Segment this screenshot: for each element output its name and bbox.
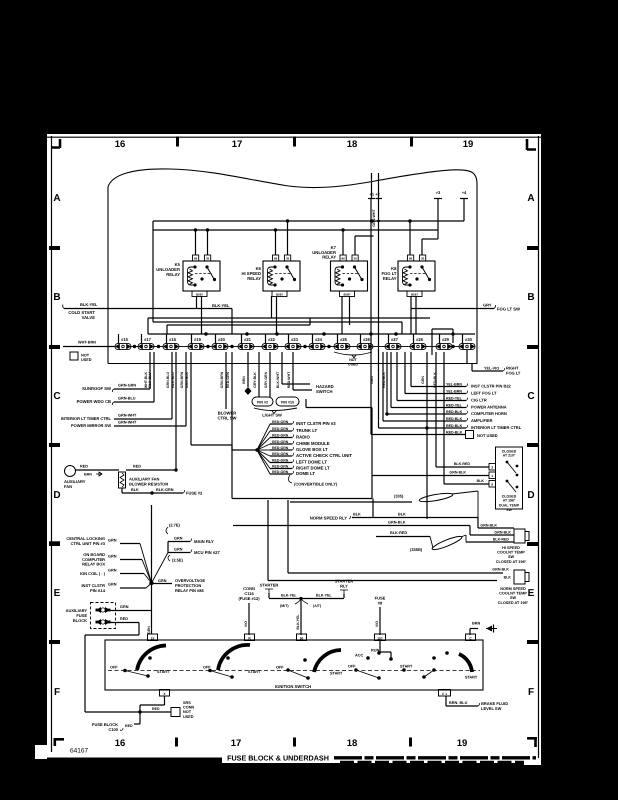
svg-text:GRN: GRN xyxy=(108,583,117,587)
wire drop to fuse bus xyxy=(401,322,403,334)
svg-text:FOG LT: FOG LT xyxy=(506,371,521,376)
svg-text:RED-BLK: RED-BLK xyxy=(446,431,463,435)
svg-text:YEL-VIO: YEL-VIO xyxy=(484,367,499,371)
svg-text:NORM SPEED RLY: NORM SPEED RLY xyxy=(310,516,348,521)
svg-text:LEVEL SW: LEVEL SW xyxy=(481,706,502,711)
wire red drop to fuse block c100 xyxy=(84,635,86,712)
svg-text:BLK: BLK xyxy=(398,513,406,517)
svg-text:RED: RED xyxy=(120,617,128,621)
svg-text:#25: #25 xyxy=(340,337,348,342)
svg-text:+4: +4 xyxy=(462,190,467,195)
svg-text:C 1: C 1 xyxy=(442,692,447,696)
svg-text:POWER ANTENNA: POWER ANTENNA xyxy=(471,405,507,410)
ignition contact arc 2 xyxy=(218,645,250,670)
aux fuse 1 xyxy=(96,607,110,613)
svg-text:A: A xyxy=(53,193,60,204)
svg-text:GRN-WHT: GRN-WHT xyxy=(118,414,137,418)
svg-text:PIN #10: PIN #10 xyxy=(281,401,294,405)
svg-text:LEFT FOG LT: LEFT FOG LT xyxy=(471,391,497,396)
svg-text:#18: #18 xyxy=(169,337,177,342)
svg-text:85/87: 85/87 xyxy=(411,292,418,296)
ignition contact arc 3 xyxy=(314,650,341,672)
svg-text:(2.5E): (2.5E) xyxy=(172,558,184,563)
svg-text:85/87: 85/87 xyxy=(196,292,203,296)
svg-text:1: 1 xyxy=(491,474,493,478)
svg-text:GRN-WHT: GRN-WHT xyxy=(118,421,137,425)
svg-text:85/87: 85/87 xyxy=(276,292,283,296)
wire K7 pin 30 riser xyxy=(354,236,356,255)
ignition pin 50 xyxy=(297,634,307,641)
svg-text:(335): (335) xyxy=(394,494,404,499)
wire riser to overvoltage node xyxy=(167,542,169,553)
svg-text:GRN-WHT: GRN-WHT xyxy=(372,209,376,227)
wire riser from fuse 29-30 area xyxy=(452,329,454,343)
wire RED-YEL to power antenna xyxy=(390,352,392,408)
svg-text:NOT: NOT xyxy=(349,358,357,362)
svg-text:BLK: BLK xyxy=(504,576,512,580)
svg-text:GRY-GRN: GRY-GRN xyxy=(264,371,268,388)
svg-text:15?: 15? xyxy=(377,636,383,640)
svg-text:#17: #17 xyxy=(144,337,152,342)
svg-text:DOME LT: DOME LT xyxy=(296,471,315,476)
svg-text:CTRL UNIT PIN #3: CTRL UNIT PIN #3 xyxy=(71,541,106,546)
svg-text:RED-GRN: RED-GRN xyxy=(272,434,289,438)
white diagram page xyxy=(47,134,541,758)
svg-text:C100: C100 xyxy=(108,727,118,732)
svg-text:PIN A14: PIN A14 xyxy=(90,588,106,593)
title bar dashes left xyxy=(66,758,232,762)
svg-text:(335B): (335B) xyxy=(410,547,423,552)
svg-text:RLY: RLY xyxy=(340,584,348,589)
fuse block inner box outline xyxy=(190,352,192,445)
central locking label xyxy=(49,541,60,544)
svg-text:#21: #21 xyxy=(244,337,252,342)
svg-text:GRY: GRY xyxy=(483,303,492,308)
auxiliary fan motor xyxy=(65,466,76,477)
wire sunroof sw xyxy=(149,352,151,389)
wire RED-BLK to amplifier xyxy=(382,352,384,421)
fuse #18 xyxy=(163,343,179,349)
svg-text:AMPLIFIER: AMPLIFIER xyxy=(471,418,493,423)
ignition pin c1 bottom xyxy=(439,690,451,697)
svg-text:AT 210°: AT 210° xyxy=(503,454,516,458)
wire power mirror sw xyxy=(185,352,187,426)
svg-text:30: 30 xyxy=(206,257,210,261)
svg-text:START: START xyxy=(157,670,170,674)
ignition pin r xyxy=(245,634,255,641)
svg-text:#28: #28 xyxy=(416,337,424,342)
wire yel-vio right fog lt xyxy=(466,350,468,364)
not used brace fuses 25 26 xyxy=(334,352,372,358)
svg-text:FOG LT SW: FOG LT SW xyxy=(497,307,520,312)
svg-text:COOLNT TEMP: COOLNT TEMP xyxy=(499,592,527,596)
fuse #27 xyxy=(385,343,401,349)
relay K5 unloader relay xyxy=(183,261,220,291)
wire blk to pin 9 xyxy=(443,352,445,484)
svg-text:#23: #23 xyxy=(291,337,299,342)
not used connector square xyxy=(466,431,474,439)
wire hazard switch 1 xyxy=(281,352,283,384)
svg-text:16: 16 xyxy=(115,738,126,749)
svg-text:D: D xyxy=(53,490,60,501)
svg-text:RED-BLK: RED-BLK xyxy=(446,417,463,421)
svg-text:BLK-YEL: BLK-YEL xyxy=(296,614,300,630)
svg-text:MAIN RLY: MAIN RLY xyxy=(194,539,214,544)
light sw pin 2 connector xyxy=(252,397,273,406)
svg-text:SW: SW xyxy=(506,508,512,512)
wire YEL-BRN to inst clstr pin b22 xyxy=(410,352,412,387)
title bar dashes right xyxy=(334,756,536,759)
svg-text:RED-GRN: RED-GRN xyxy=(272,446,289,450)
svg-text:RELAY PIN #86: RELAY PIN #86 xyxy=(175,588,204,593)
svg-text:GRN-BRN: GRN-BRN xyxy=(180,371,184,388)
svg-text:GRN-BLK: GRN-BLK xyxy=(449,471,466,475)
svg-text:RED-WHT: RED-WHT xyxy=(287,371,291,388)
svg-text:GRN-GRN: GRN-GRN xyxy=(118,384,136,388)
svg-text:RED-GRN: RED-GRN xyxy=(272,452,289,456)
wire K5 pin 86 riser xyxy=(195,230,197,255)
wire grn-blk from box to norm sw xyxy=(287,500,289,573)
wire blk from box to norm sw xyxy=(267,500,269,581)
junction dots on buses xyxy=(286,219,289,222)
ignition contact arc 1 xyxy=(137,646,166,671)
svg-text:BLK: BLK xyxy=(131,488,139,492)
fuse #25 xyxy=(334,343,350,349)
svg-text:A: A xyxy=(527,193,534,204)
svg-text:BLK-RED: BLK-RED xyxy=(390,531,407,535)
wire K8 pin 86 riser xyxy=(409,221,411,255)
wire K7 85/87 drop xyxy=(341,296,343,334)
bus wire lower xyxy=(153,229,438,231)
fuse #24 xyxy=(309,343,325,349)
svg-text:RED-BLK: RED-BLK xyxy=(446,410,463,414)
wire RED-YEL to cig ltr xyxy=(396,352,398,401)
wire +4 xyxy=(463,199,465,221)
convertible only note xyxy=(288,475,292,483)
svg-text:GRN-BLK: GRN-BLK xyxy=(492,568,509,572)
svg-text:LEFT DOME LT: LEFT DOME LT xyxy=(296,460,327,465)
fuse #20 xyxy=(212,343,228,349)
svg-text:RED-GRN: RED-GRN xyxy=(272,465,289,469)
svg-text:+3: +3 xyxy=(436,190,441,195)
svg-text:NORM SPEED: NORM SPEED xyxy=(500,587,526,591)
svg-text:COOLNT TEMP: COOLNT TEMP xyxy=(497,551,525,555)
wire riser grn long xyxy=(426,352,428,519)
svg-text:GRN: GRN xyxy=(120,605,129,609)
wire +1 feed xyxy=(371,173,373,199)
svg-text:GRN: GRN xyxy=(108,569,117,573)
ignition pin 15b xyxy=(375,634,386,641)
wire RED-BLK to interior lt timer ctrl xyxy=(378,199,380,428)
svg-text:19: 19 xyxy=(457,738,468,749)
norm speed coolant temp sw connector xyxy=(514,570,525,584)
svg-text:9: 9 xyxy=(491,483,493,487)
wire blk-yel to ignition pin 50 xyxy=(300,599,302,636)
wire gry-grn to light sw pin 10 xyxy=(269,352,271,397)
svg-text:(2.7E): (2.7E) xyxy=(169,523,181,528)
svg-text:INST CLSTR PIN B22: INST CLSTR PIN B22 xyxy=(471,384,512,389)
svg-text:BLK-WHT: BLK-WHT xyxy=(276,371,280,388)
wire blk blk-grn fuse 2 xyxy=(121,488,123,493)
svg-text:17: 17 xyxy=(232,139,243,150)
fuse #23 xyxy=(285,343,301,349)
wire blower ctrl sw xyxy=(225,352,227,409)
svg-text:GRN-BLK: GRN-BLK xyxy=(480,524,497,528)
svg-text:SW: SW xyxy=(508,555,515,559)
dual temp sw pin 1 xyxy=(489,472,496,479)
svg-text:RED: RED xyxy=(133,465,141,469)
svg-text:MCU PIN #27: MCU PIN #27 xyxy=(194,550,221,555)
svg-text:START: START xyxy=(400,665,413,669)
svg-text:RELAY: RELAY xyxy=(322,255,336,260)
svg-text:18: 18 xyxy=(347,738,358,749)
svg-text:GRN: GRN xyxy=(147,626,151,634)
svg-text:E: E xyxy=(54,588,61,599)
svg-text:IGN COIL ( - ): IGN COIL ( - ) xyxy=(80,571,106,576)
svg-text:YEL-BRN: YEL-BRN xyxy=(446,390,462,394)
svg-text:CLOSED AT 196°: CLOSED AT 196° xyxy=(498,601,529,605)
wire vio fuse 8 to ignition xyxy=(379,607,381,635)
svg-text:#24: #24 xyxy=(315,337,323,342)
wire across at 322 xyxy=(153,321,402,323)
svg-text:RED-YEL: RED-YEL xyxy=(446,404,463,408)
svg-text:COMPUTER HORN: COMPUTER HORN xyxy=(471,411,507,416)
fuse #30 xyxy=(459,343,475,349)
svg-text:GRN: GRN xyxy=(158,579,167,583)
light sw brace xyxy=(254,408,297,414)
svg-text:86: 86 xyxy=(194,257,198,261)
svg-text:(M/T): (M/T) xyxy=(280,604,289,608)
svg-text:RED-YEL: RED-YEL xyxy=(446,397,463,401)
svg-text:RED-BLK: RED-BLK xyxy=(446,424,463,428)
wire K7 pin 86 riser xyxy=(342,230,344,255)
svg-text:OFF: OFF xyxy=(110,666,118,670)
svg-text:VIO: VIO xyxy=(244,621,248,627)
svg-text:B: B xyxy=(527,292,534,303)
svg-text:RED: RED xyxy=(152,707,160,711)
svg-text:#30: #30 xyxy=(465,337,473,342)
svg-text:15: 15 xyxy=(151,636,155,640)
svg-text:NOT USED: NOT USED xyxy=(477,433,498,438)
svg-text:GRN-BLK: GRN-BLK xyxy=(388,521,406,525)
fuse #19 xyxy=(188,343,204,349)
svg-text:HI SPEED: HI SPEED xyxy=(502,546,520,550)
svg-text:RED-GRN: RED-GRN xyxy=(272,420,289,424)
svg-text:E: E xyxy=(528,588,535,599)
svg-text:OFF: OFF xyxy=(348,665,356,669)
svg-text:RED: RED xyxy=(125,724,133,728)
svg-text:BLK-GRN: BLK-GRN xyxy=(156,488,174,492)
svg-text:17: 17 xyxy=(231,738,242,749)
wire +3 to K8 xyxy=(437,199,439,239)
svg-text:GLOVE BOX LT: GLOVE BOX LT xyxy=(296,447,328,452)
dual temp sw pin 9 xyxy=(489,481,496,488)
registration corner marks xyxy=(52,139,60,148)
bottom black margin xyxy=(0,763,618,800)
svg-text:RELAY: RELAY xyxy=(247,276,261,281)
wire RED-BLK to not used xyxy=(370,199,372,435)
svg-text:CONN: CONN xyxy=(183,706,194,710)
title FUSE BLOCK & UNDERDASH xyxy=(222,752,336,762)
bus wire upper xyxy=(153,220,464,222)
fuse #17 xyxy=(138,343,154,349)
svg-text:SRS: SRS xyxy=(183,701,191,705)
svg-text:CHIME MODULE: CHIME MODULE xyxy=(296,441,330,446)
wire power wdo cb xyxy=(153,352,155,402)
fuse #21 xyxy=(238,343,254,349)
svg-text:NOT: NOT xyxy=(81,354,90,358)
svg-text:19: 19 xyxy=(463,139,474,150)
ignition switch box xyxy=(105,640,483,690)
svg-text:LIGHT SW: LIGHT SW xyxy=(262,413,282,418)
svg-text:BLK: BLK xyxy=(353,513,361,517)
svg-text:BLOCK: BLOCK xyxy=(73,618,87,623)
svg-text:C: C xyxy=(53,391,60,402)
harness outline box with wavy top xyxy=(108,169,477,364)
svg-text:ACC: ACC xyxy=(355,654,363,658)
fuse #29 xyxy=(436,343,452,349)
svg-text:GRN-BLU: GRN-BLU xyxy=(118,397,136,401)
auxiliary fan blower resistor xyxy=(119,472,126,488)
row boundary ticks xyxy=(49,246,60,250)
svg-text:CLOSED AT 196°: CLOSED AT 196° xyxy=(496,560,527,564)
svg-text:30: 30 xyxy=(353,257,357,261)
svg-text:(FUSE #12): (FUSE #12) xyxy=(238,596,260,601)
svg-text:YEL-BRN: YEL-BRN xyxy=(446,383,462,387)
svg-text:BRN: BRN xyxy=(242,376,246,384)
svg-text:VALVE: VALVE xyxy=(82,315,96,320)
wire K5 85/87 drop xyxy=(196,296,198,309)
hi speed coolant temp sw connector xyxy=(514,529,525,543)
wire K8 85/87 drop and GRY to fog lt sw xyxy=(410,296,412,309)
svg-text:SWITCH: SWITCH xyxy=(316,389,333,394)
fuse #28 xyxy=(410,343,426,349)
svg-text:START: START xyxy=(330,672,343,676)
fuse #15 xyxy=(115,343,131,349)
svg-text:BLOWER RESISTOR: BLOWER RESISTOR xyxy=(129,482,168,487)
svg-text:#27: #27 xyxy=(391,337,399,342)
svg-text:64167: 64167 xyxy=(70,748,88,755)
svg-text:IGNITION SWITCH: IGNITION SWITCH xyxy=(275,684,311,689)
svg-text:RADIO: RADIO xyxy=(296,435,311,440)
svg-text:INTERIOR LT TIMER CTRL: INTERIOR LT TIMER CTRL xyxy=(471,425,522,430)
svg-text:START: START xyxy=(248,670,261,674)
svg-text:#15: #15 xyxy=(121,337,129,342)
svg-text:86: 86 xyxy=(409,257,413,261)
svg-text:F: F xyxy=(528,687,534,698)
wire blk-red to pin 3 xyxy=(435,352,437,467)
wire RED-BLK to computer horn xyxy=(386,352,388,414)
fuse row link wires xyxy=(131,346,138,348)
wire +2 feed xyxy=(378,173,380,199)
svg-text:BRN- BLU: BRN- BLU xyxy=(449,701,468,705)
svg-text:B: B xyxy=(53,292,60,303)
svg-text:AT 196°: AT 196° xyxy=(503,499,516,503)
svg-text:RED-GRN: RED-GRN xyxy=(272,427,289,431)
svg-text:BRN: BRN xyxy=(472,622,480,626)
wire hazard switch 2 xyxy=(292,352,294,390)
svg-text:CIG LTR: CIG LTR xyxy=(471,398,487,403)
svg-text:(A/T): (A/T) xyxy=(313,604,322,608)
wire interior lt timer ctrl xyxy=(171,352,173,419)
ignition contact arc 4 xyxy=(459,654,472,672)
wire K5 pin 30 riser xyxy=(207,230,209,255)
svg-text:POWER WDO CB: POWER WDO CB xyxy=(77,399,111,404)
svg-text:RED: RED xyxy=(80,465,88,469)
svg-text:GRN: GRN xyxy=(421,376,425,384)
svg-text:WHT-BRN: WHT-BRN xyxy=(78,341,96,345)
svg-text:GRN-BLK: GRN-BLK xyxy=(494,531,511,535)
svg-text:BLK-RED: BLK-RED xyxy=(493,538,510,542)
svg-text:D: D xyxy=(527,490,534,501)
overvoltage protection node xyxy=(149,581,153,585)
svg-text:50: 50 xyxy=(300,636,304,640)
svg-text:RED-GRN: RED-GRN xyxy=(226,371,230,388)
svg-text:GRN: GRN xyxy=(108,539,117,543)
svg-text:#19: #19 xyxy=(194,337,202,342)
svg-text:RELAY: RELAY xyxy=(383,276,397,281)
connector not used xyxy=(70,352,78,360)
red-grn distribution fan xyxy=(231,352,233,450)
svg-text:FUSE BLOCK & UNDERDASH: FUSE BLOCK & UNDERDASH xyxy=(227,754,329,763)
svg-text:3: 3 xyxy=(491,466,493,470)
dual temp sw box xyxy=(496,447,523,509)
svg-text:#29: #29 xyxy=(442,337,450,342)
svg-text:RED-GRN: RED-GRN xyxy=(272,440,289,444)
svg-text:BLK-YEL: BLK-YEL xyxy=(281,594,297,598)
svg-text:RED-GRN: RED-GRN xyxy=(272,470,289,474)
svg-text:#20: #20 xyxy=(218,337,226,342)
relay K6 hi speed relay xyxy=(263,261,300,291)
svg-text:C: C xyxy=(527,391,534,402)
svg-text:VIO: VIO xyxy=(375,621,379,627)
wire riser to fan junction xyxy=(175,352,177,470)
fuse #22 xyxy=(262,343,278,349)
dual temp sw pin 3 xyxy=(489,464,496,471)
wire red resistor to junction xyxy=(126,469,176,471)
fuse feed bus xyxy=(148,333,475,335)
svg-text:BLK-YEL: BLK-YEL xyxy=(80,302,98,307)
svg-text:GRN: GRN xyxy=(108,555,117,559)
svg-text:#22: #22 xyxy=(268,337,276,342)
svg-text:USED: USED xyxy=(81,358,92,362)
svg-text:BLK: BLK xyxy=(477,479,485,483)
svg-text:30: 30 xyxy=(421,257,425,261)
ignition pin 15 xyxy=(148,634,158,641)
wire brn connector xyxy=(247,352,249,387)
svg-text:START: START xyxy=(465,676,478,680)
svg-text:BLK-YEL: BLK-YEL xyxy=(212,303,230,308)
svg-text:86: 86 xyxy=(341,257,345,261)
light sw pin 10 connector xyxy=(276,397,299,406)
wire ignition x to srs xyxy=(164,696,166,705)
aux fuse 2 xyxy=(96,619,110,625)
ignition pin c xyxy=(466,634,476,641)
svg-text:INTERIOR LT TIMER CTRL: INTERIOR LT TIMER CTRL xyxy=(61,416,112,421)
svg-text:GRY-BLK: GRY-BLK xyxy=(253,372,257,388)
svg-text:FUSE #2: FUSE #2 xyxy=(186,491,203,496)
svg-text:ACTIVE CHECK CTRL UNIT: ACTIVE CHECK CTRL UNIT xyxy=(296,453,352,458)
svg-text:16: 16 xyxy=(115,139,126,150)
svg-text:RIGHT DOME LT: RIGHT DOME LT xyxy=(296,466,330,471)
svg-text:30: 30 xyxy=(286,257,290,261)
svg-text:OFF: OFF xyxy=(276,666,284,670)
wire grn-blk to pin 1 xyxy=(372,475,489,477)
svg-text:RELAY BOX: RELAY BOX xyxy=(82,562,105,567)
svg-text:GRN-BRN: GRN-BRN xyxy=(220,371,224,388)
srs conn not used xyxy=(171,708,180,717)
svg-text:RED-GRN: RED-GRN xyxy=(272,459,289,463)
